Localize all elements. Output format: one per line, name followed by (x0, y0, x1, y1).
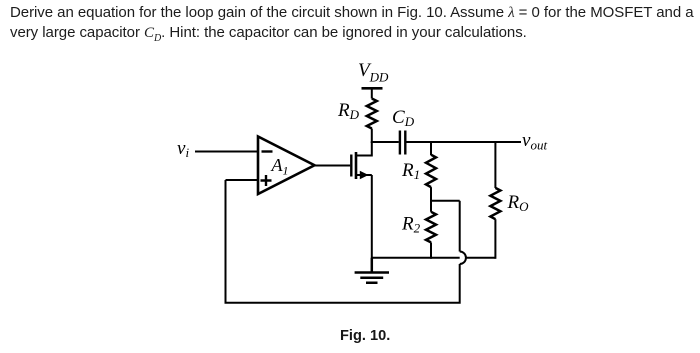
supply VDD bar (362, 87, 383, 90)
wire: v_i to op-amp inverting input (195, 151, 258, 153)
svg-text:vi: vi (177, 138, 189, 160)
wire: MOSFET source lead (356, 174, 372, 176)
wire: drain node to capacitor C_D (371, 141, 399, 143)
resistor R_1 (426, 155, 436, 187)
wire: feedback vertical lower segment, bottom run and up to op-amp + input (226, 180, 460, 303)
wire: VDD bar to R_D top (371, 88, 373, 98)
svg-text:CD: CD (392, 107, 415, 129)
MOSFET source arrow (360, 171, 369, 179)
ground symbol (355, 258, 389, 283)
svg-text:A1: A1 (271, 155, 289, 178)
op-amp A1 triangle (258, 137, 315, 195)
wire: R_2 bottom to ground bus (430, 242, 432, 258)
wire hop over ground bus (460, 252, 466, 265)
wire: R_O bottom to ground bus (494, 219, 496, 259)
wire: MOSFET drain lead to drain node (356, 142, 372, 156)
resistor R_O (490, 188, 500, 219)
svg-text:R2: R2 (401, 214, 421, 236)
wire: op-amp output to MOSFET gate (315, 165, 351, 167)
op-amp plus sign (261, 175, 272, 186)
wire: R_1 bottom to tap node (430, 187, 432, 201)
resistor R_2 (426, 212, 436, 243)
svg-text:RD: RD (337, 100, 360, 122)
wire: node to R_O top (494, 141, 496, 188)
svg-text:R1: R1 (401, 160, 420, 182)
MOSFET M1 gate bar (350, 155, 352, 177)
wire: tap node to R_2 top (430, 201, 432, 212)
MOSFET M1 channel bar (355, 152, 358, 179)
op-amp minus sign (262, 150, 273, 152)
svg-text:RO: RO (507, 192, 530, 214)
wire: capacitor to v_out (406, 141, 521, 143)
wire: R_D bottom to drain node (371, 129, 373, 144)
svg-text:VDD: VDD (358, 60, 389, 85)
wire: node to R_1 top (430, 141, 432, 155)
resistor R_D (367, 99, 377, 129)
wire: feedback to op-amp non-inverting input (226, 179, 259, 181)
wire: MOSFET source down to ground bus (371, 175, 373, 259)
wire: feedback vertical upper segment (459, 201, 461, 252)
capacitor C_D plates (400, 131, 405, 155)
wire: ground bus (372, 257, 496, 259)
svg-text:vout: vout (522, 130, 547, 153)
wire: tap node to feedback line (430, 200, 460, 202)
